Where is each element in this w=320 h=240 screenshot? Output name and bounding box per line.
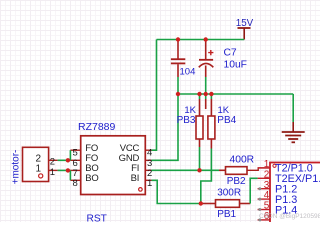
svg-text:5: 5 [264, 201, 270, 212]
svg-text:3: 3 [264, 180, 270, 191]
resistor PB1 300R [201, 188, 250, 220]
wire +15V top rail [157, 39, 245, 41]
resistor PB2 400R [226, 155, 255, 187]
wire GND pin3 net [152, 94, 179, 160]
resistor PB4 1K [208, 94, 237, 149]
pin 4 VCC [145, 149, 151, 151]
svg-text:RZ7889: RZ7889 [78, 121, 116, 133]
wire motor pin1 to BO [58, 169, 71, 171]
svg-text:104: 104 [180, 67, 196, 78]
pin 3 GND [145, 159, 151, 161]
svg-text:4: 4 [264, 190, 270, 201]
svg-text:1: 1 [35, 163, 41, 174]
ground [282, 122, 305, 142]
wire PB3 to FI [199, 147, 201, 170]
resistor PB3 1K [177, 94, 203, 147]
capacitor 104 [171, 40, 195, 78]
svg-text:C7: C7 [224, 48, 237, 59]
wire gnd rail down to ground [292, 94, 294, 122]
svg-text:1: 1 [147, 178, 152, 189]
svg-text:BO: BO [85, 173, 98, 184]
svg-text:300R: 300R [217, 188, 241, 199]
svg-text:PB4: PB4 [217, 115, 236, 126]
pin 2 FI [145, 169, 151, 171]
svg-text:1: 1 [50, 167, 55, 178]
pin 1 BI [145, 179, 151, 181]
wire BO7-BO8 bracket [69, 170, 71, 180]
power symbol 15V [236, 18, 254, 40]
wire motor pin2 to FO [58, 159, 71, 161]
pin 8 BO [70, 179, 80, 181]
wire FO5-FO6 bracket [69, 150, 71, 160]
capacitor C7 10uF [199, 40, 247, 78]
IC RZ7889 [70, 121, 152, 225]
pin 6 FO [70, 159, 80, 161]
wire FI net [152, 169, 220, 171]
chip marker circle [139, 188, 143, 192]
svg-text:RST: RST [87, 214, 107, 223]
svg-text:400R: 400R [230, 155, 255, 166]
pin stub below rail (C7 pin overshoot) [205, 94, 207, 99]
svg-text:PB3: PB3 [177, 115, 196, 126]
svg-text:2: 2 [264, 169, 270, 180]
svg-text:10uF: 10uF [224, 60, 247, 71]
svg-text:1: 1 [264, 159, 270, 170]
svg-text:PB2: PB2 [227, 176, 246, 187]
wire C7 to gnd rail [205, 77, 207, 94]
wire VCC vertical [152, 40, 157, 151]
svg-text:8: 8 [73, 178, 78, 189]
pin 7 BO [70, 169, 80, 171]
svg-text:BI: BI [131, 173, 140, 184]
wire PB4 to BI net [201, 149, 212, 204]
wire GND rail [178, 93, 293, 95]
svg-text:+motor-: +motor- [11, 150, 22, 185]
wire PB2 to pin1 [247, 168, 270, 170]
svg-text:15V: 15V [236, 18, 254, 29]
svg-text:CSDN @BigP1205987: CSDN @BigP1205987 [259, 213, 320, 220]
svg-text:PB1: PB1 [217, 209, 236, 220]
wire PB1 to pin2 [250, 178, 257, 203]
connector P1 right [258, 159, 320, 227]
wire 104 to gnd rail [177, 77, 179, 94]
pin 5 FO [70, 149, 80, 151]
connector motor J1 [11, 147, 58, 184]
wire BI pin to down-jog [152, 180, 201, 203]
